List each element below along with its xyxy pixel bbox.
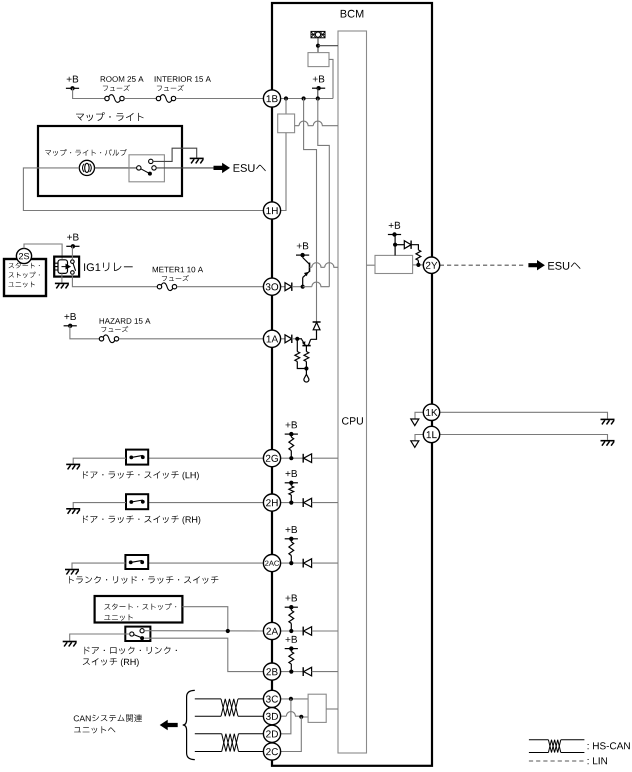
label lock switch line2: [83, 658, 139, 667]
start-stop unit box (lower): [95, 596, 183, 623]
junction R1/R2: [304, 366, 308, 370]
legend LIN dashed: [529, 760, 585, 762]
wire 2H to latch switch RH: [148, 502, 263, 504]
legend HS-CAN symbol: [529, 739, 549, 741]
diode (2B): [302, 667, 304, 676]
wire diode to CPU (2B): [312, 671, 338, 673]
+B supply (2Y): [389, 222, 401, 229]
+B supply (hazard fuse): [64, 313, 76, 320]
junction 3C/2D: [289, 697, 293, 701]
relay IG1 box: [54, 257, 79, 277]
wire trunk switch to ground: [72, 563, 125, 569]
legend HS-CAN text: [588, 742, 630, 749]
switch contacts (map light): [137, 166, 141, 170]
CPU box: [338, 31, 367, 753]
wire switch RH to ground: [73, 503, 126, 508]
wire bulb to 1H: [23, 168, 263, 211]
wire relay to METER1 fuse: [72, 274, 157, 286]
door latch switch LH box: [126, 450, 148, 465]
wire D2 to node: [292, 338, 298, 340]
fuse INTERIOR 15 A: [156, 96, 160, 100]
wire D4 to resistor R3: [411, 245, 418, 250]
wire B (1B to 3O node): [318, 99, 330, 287]
wire 2H to diode: [281, 502, 304, 504]
junction S1/CPU: [316, 44, 320, 48]
wire 1K to ground: [440, 412, 607, 418]
ground (trunk switch): [65, 569, 79, 571]
twisted pair wires 3C/3D: [195, 698, 221, 700]
ground (IG1 relay): [55, 282, 69, 284]
resistor R2: [305, 346, 307, 352]
sensor S1 (hatched box): [311, 31, 325, 37]
connector 2G: [263, 450, 280, 467]
junction 1B/+B: [316, 96, 320, 100]
junction 2B/resistor: [289, 670, 293, 674]
junction 2H/resistor: [289, 501, 293, 505]
ground (latch switch RH): [66, 508, 80, 510]
dashed LIN wire 2Y to ESU: [440, 264, 524, 266]
label latch switch RH: [83, 516, 200, 525]
ground (1K): [601, 418, 615, 420]
wire +B to fuse ROOM: [73, 88, 105, 98]
+B supply (Q1): [297, 242, 309, 249]
module box U3: [308, 694, 326, 722]
connector 2Y: [423, 257, 439, 273]
resistor R1: [296, 339, 298, 352]
relay coil: [58, 260, 68, 274]
wire diode to CPU (2AC): [312, 562, 338, 564]
wire 2AC to diode: [281, 562, 304, 564]
junction Q1/3O: [301, 285, 305, 289]
+B supply (2B pull-up): [286, 636, 298, 643]
wire R3 to 2Y node: [417, 260, 419, 265]
+B supply (2H pull-up): [286, 470, 298, 477]
wire 2AC to trunk switch: [148, 562, 263, 564]
connector 2C: [263, 743, 280, 760]
module box U4: [375, 255, 413, 273]
junction 1B/wireA: [302, 96, 306, 100]
wire U3 to CPU: [326, 708, 338, 710]
connector 2H: [263, 494, 280, 511]
shield triangle (1K): [411, 419, 419, 426]
diode D4: [395, 244, 404, 246]
wire +B down to 1B bus: [317, 88, 319, 98]
switch box (map light): [129, 155, 164, 182]
resistor (2B pull-up): [290, 649, 292, 652]
resistor (2H pull-up): [290, 483, 292, 486]
fuse ROOM 25 A: [105, 96, 109, 100]
connector 1K: [423, 404, 439, 420]
transistor Q1: [302, 255, 304, 257]
diode D1 (3O): [281, 286, 285, 288]
ground (lock switch): [63, 641, 77, 643]
wire U2 to CPU with jumps: [295, 121, 338, 126]
wire CPU to U4: [367, 264, 376, 266]
wire junction to U2: [285, 99, 287, 115]
diode (2G): [302, 454, 304, 463]
relay contacts: [71, 260, 75, 264]
arrow to ESU (map light): [214, 163, 231, 173]
resistor (2A pull-up): [290, 607, 292, 610]
arrow to ESU (2Y): [528, 260, 545, 270]
wire lock switch to ground: [70, 634, 130, 641]
connector 2AC: [263, 555, 280, 572]
wire Q1 base to CPU with jumps: [310, 263, 339, 268]
wire 1B bus: [281, 98, 333, 100]
wire U2 to 1H: [281, 133, 286, 211]
wire 2C up to 3D node: [281, 717, 302, 752]
connector 1L: [423, 426, 439, 442]
wire 1L to shield symbol: [415, 435, 423, 441]
wire 3C to U3: [281, 698, 308, 700]
wire fuse to 1A: [119, 338, 264, 340]
wire +B into U4: [394, 235, 396, 256]
diode (2AC): [302, 559, 304, 568]
+B supply (room/interior fuses): [67, 76, 79, 83]
wire fuse to 3O: [177, 286, 264, 288]
wire U4 to 2Y: [413, 264, 424, 266]
resistor R3: [416, 250, 421, 261]
junction 2AC/resistor: [289, 561, 293, 565]
wire fuse to fuse: [124, 98, 156, 100]
connector 3D: [263, 708, 280, 725]
wire +B to HAZARD fuse: [70, 326, 99, 339]
wire 2S to relay coil: [24, 244, 62, 259]
connector 1H: [263, 202, 280, 219]
+B supply (IG1 relay): [67, 234, 79, 241]
test point (teardrop): [305, 369, 307, 375]
label lock switch line1: [85, 647, 177, 655]
connector 2S: [16, 248, 31, 263]
connector 1B: [263, 90, 280, 107]
label latch switch LH: [83, 471, 199, 480]
wire lock switch to 2A: [144, 630, 263, 632]
wire lock switch lower to 2B: [144, 638, 263, 671]
wire 3O node to wire B with jump: [303, 282, 330, 287]
wire diode to CPU (2A): [312, 630, 338, 632]
junction R3/2Y: [416, 263, 420, 267]
+B supply (1B internal): [313, 76, 325, 83]
wire start-stop unit to 2A node: [182, 607, 227, 631]
wire diode to CPU (2H): [312, 502, 338, 504]
junction +B/diode D4: [393, 243, 397, 247]
label CAN units line1: [74, 714, 142, 722]
diode D3 (up): [313, 321, 321, 323]
wire 2D up to 3C node: [281, 699, 291, 734]
resistor (2G pull-up): [290, 434, 292, 437]
map light unit box: [38, 126, 182, 196]
wire relay coil to ground: [61, 273, 63, 282]
wire bulb to switch: [95, 167, 137, 169]
junction 3D/2C: [299, 715, 303, 719]
wire 3D to U3 with jump: [281, 712, 308, 717]
door latch switch RH box: [126, 494, 148, 509]
ground (map light): [190, 157, 204, 159]
transistor Q2: [297, 338, 302, 340]
junction start-stop/2A: [226, 629, 230, 633]
wire switch LH to ground: [73, 458, 126, 463]
connector 2A: [263, 622, 280, 639]
wire fuse to 1B: [176, 98, 264, 100]
bulb (map light): [79, 160, 94, 175]
wire switch to ESU arrow: [156, 167, 213, 169]
ground (latch switch LH): [66, 463, 80, 465]
wire D1 to node: [292, 286, 303, 288]
connector 3O: [263, 278, 280, 295]
wire 1L to ground: [440, 435, 607, 440]
diode (2H): [302, 498, 304, 507]
connector 1A: [263, 330, 280, 347]
+B supply (2AC pull-up): [286, 526, 298, 533]
wire junction to CPU: [318, 45, 338, 47]
wire 2G to diode: [281, 457, 304, 459]
wire 1K to shield symbol: [415, 412, 423, 419]
diode (2A): [302, 627, 304, 636]
wire diode to CPU (2G): [312, 457, 338, 459]
wire switch top contact to ground: [153, 148, 197, 161]
wire A (1B to D3): [304, 99, 317, 323]
label trunk switch: [69, 576, 218, 584]
junction 1B/U2: [284, 96, 288, 100]
connector 2B: [263, 663, 280, 680]
legend LIN text: [588, 757, 607, 764]
wire U1 to 1B bus: [329, 59, 333, 98]
+B supply (2G pull-up): [286, 421, 298, 428]
wire +B to relay contact: [71, 246, 73, 259]
label CAN units line2: [74, 726, 115, 733]
map light bulb label: [45, 149, 127, 156]
fuse METER1 10 A: [157, 285, 161, 289]
shield triangle (1L): [411, 441, 419, 448]
module box U2: [278, 114, 295, 133]
wire S1 to U1: [317, 38, 319, 53]
wire Q2 collector to D3: [311, 330, 317, 339]
resistor (2AC pull-up): [290, 539, 292, 542]
junction 2G/resistor: [289, 456, 293, 460]
connector 2D: [263, 725, 280, 742]
start-stop unit box (left): [4, 259, 46, 296]
brace (CAN harness): [183, 690, 195, 759]
trunk lid latch switch box: [125, 555, 148, 569]
+B supply (2A pull-up): [286, 595, 298, 602]
ground (1L): [601, 440, 615, 442]
module box U1: [308, 53, 329, 67]
wire 2G to latch switch LH: [148, 457, 263, 459]
fuse HAZARD 15 A: [99, 337, 103, 341]
diode D2 (1A): [281, 338, 285, 340]
twisted pair wires 2D/2C: [195, 733, 222, 735]
wire 2B to diode: [281, 671, 304, 673]
wire 2A to diode: [281, 630, 304, 632]
door lock link switch box: [125, 627, 150, 641]
junction 2A/resistor: [289, 629, 293, 633]
connector 3C: [263, 690, 280, 707]
BCM outer box: [272, 3, 432, 766]
arrow to CAN system units: [160, 720, 178, 730]
junction 1A node: [295, 337, 299, 341]
